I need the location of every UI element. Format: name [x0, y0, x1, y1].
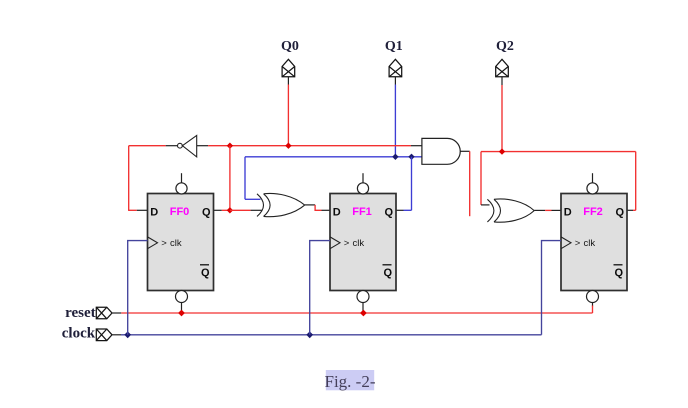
node junction Q2 pin (red dot) — [499, 148, 505, 154]
FF1 clear bubble — [357, 291, 369, 303]
wire XOR1 upper input riser (blue) — [244, 157, 246, 200]
xor gate XOR1 — [257, 193, 305, 216]
wire FF2 Q pin stub — [627, 209, 633, 211]
wire Q2 pin stem — [501, 77, 503, 85]
wire XOR3 upper input stub — [481, 204, 490, 206]
svg-text:Q: Q — [383, 267, 392, 279]
wire FF0 D pin stub — [137, 209, 148, 211]
wire clock FF1 riser (blue) — [310, 241, 330, 335]
svg-text:D: D — [150, 207, 158, 219]
output pin Q0 — [282, 59, 295, 77]
wire clock net (blue) — [121, 334, 542, 336]
svg-text:D: D — [333, 207, 341, 219]
wire clock FF2 riser (blue) — [542, 241, 562, 335]
wire XOR3 output stub — [534, 209, 545, 211]
svg-text:Fig. -2-: Fig. -2- — [325, 372, 376, 391]
wire inverter input stub — [197, 145, 208, 147]
FF1 preset bubble — [357, 183, 368, 194]
svg-text:reset: reset — [65, 305, 96, 321]
figure caption highlight — [326, 370, 374, 390]
wire FF2 Q riser (red) — [635, 152, 637, 211]
FF0 clear stem — [181, 302, 183, 312]
wire XOR3 upper riser (red) — [480, 152, 482, 205]
wire FF0 Q to XOR1 (red) — [230, 209, 251, 211]
svg-text:Q1: Q1 — [385, 39, 403, 54]
inverter bubble — [178, 143, 183, 148]
output pin Q2 — [496, 59, 509, 77]
svg-text:D: D — [564, 207, 572, 219]
wire FF0 feedback top (red) — [129, 145, 166, 147]
wire AND upper input stub — [411, 145, 422, 147]
xor gate XOR3 — [487, 199, 534, 222]
wire XOR1 output jog (red) — [315, 205, 321, 210]
wire FF2 Q horizontal (red) — [633, 209, 636, 211]
svg-text:clk: clk — [170, 238, 182, 249]
input pin reset — [96, 307, 112, 319]
svg-text:FF1: FF1 — [352, 206, 372, 218]
node junction FF0 Q (red dot) — [227, 207, 233, 213]
wire net Q0 horizontal (red) — [208, 145, 411, 147]
wire FF1 D pin stub — [322, 209, 331, 211]
node junction FF1 Q riser (blue dot) — [408, 154, 414, 160]
svg-text:Q: Q — [614, 267, 623, 279]
input pin clock — [96, 329, 112, 341]
wire XOR1 output stub — [305, 204, 315, 206]
wire reset pin stub — [112, 312, 121, 314]
svg-text:clk: clk — [584, 238, 596, 249]
wire XOR1 upper input (blue) — [245, 198, 261, 200]
FF2 preset bubble — [587, 183, 598, 194]
wire Q0 vertical (red) — [287, 85, 289, 146]
node junction Q0-inverter (red dot) — [227, 143, 233, 149]
wire inverter output stub — [166, 145, 178, 147]
wire net Q2 feedback horizontal (red) — [481, 151, 636, 153]
FF2 clear stem — [592, 302, 594, 306]
FF0 clear bubble — [176, 291, 188, 303]
svg-text:>: > — [161, 238, 167, 249]
wire XOR1 lower input stub — [251, 209, 262, 211]
svg-text:Q2: Q2 — [496, 39, 514, 54]
wire AND output down (red) — [469, 151, 471, 216]
node junction reset FF0 (red dot) — [178, 310, 185, 317]
FF2 preset bubble stem — [592, 173, 594, 183]
node junction reset FF1 (red dot) — [360, 310, 367, 317]
wire Q1 vertical (blue) — [394, 85, 396, 157]
node junction Q0 pin (red dot) — [285, 143, 291, 149]
wire Q2 vertical (red) — [501, 85, 503, 152]
FF2 clear bubble — [587, 291, 599, 303]
svg-text:Q0: Q0 — [281, 39, 299, 54]
node junction clock FF1 (blue dot) — [306, 331, 313, 338]
and gate U2 — [422, 138, 460, 164]
flip-flop FF2 box — [561, 194, 627, 291]
wire FF0 Q pin stub — [214, 209, 222, 211]
wire XOR3 output (red) — [545, 209, 551, 211]
wire AND output stub — [460, 150, 469, 152]
wire clock pin stub — [112, 334, 121, 336]
FF0 preset bubble — [176, 183, 187, 194]
flip-flop FF1 box — [330, 194, 396, 291]
inverter I1 — [182, 135, 196, 157]
flip-flop FF0 box — [148, 194, 214, 291]
wire FF0 Q riser (red) — [229, 146, 231, 211]
FF1 preset bubble stem — [362, 173, 364, 183]
FF1 clear stem — [362, 302, 364, 312]
wire FF0 feedback left vertical (red) — [128, 146, 130, 211]
wire clock FF0 riser (blue) — [128, 241, 148, 335]
wire FF1 Q pin stub — [396, 209, 404, 211]
FF0 preset bubble stem — [181, 173, 183, 183]
wire to FF0 D (red) — [128, 209, 137, 211]
wire Q0 pin stem — [287, 77, 289, 85]
wire FF1 Q riser (blue) — [411, 157, 413, 211]
svg-text:>: > — [575, 238, 581, 249]
svg-text:Q: Q — [384, 207, 393, 219]
svg-text:FF2: FF2 — [583, 206, 603, 218]
wire reset FF2 riser (red) — [592, 306, 594, 314]
svg-text:FF0: FF0 — [170, 206, 190, 218]
wire FF0 Q to junction (red) — [222, 209, 230, 211]
svg-text:clock: clock — [62, 326, 96, 342]
node junction clock FF0 (blue dot) — [124, 331, 131, 338]
svg-text:Q: Q — [201, 267, 210, 279]
wire FF1 Q horizontal (blue) — [404, 209, 412, 211]
output pin Q1 — [389, 59, 402, 77]
svg-text:clk: clk — [353, 238, 365, 249]
svg-text:Q: Q — [615, 207, 624, 219]
svg-text:>: > — [344, 238, 350, 249]
wire FF2 D pin stub — [552, 209, 562, 211]
wire net Q1 horizontal (blue) — [245, 156, 422, 158]
wire Q1 pin stem — [394, 77, 396, 85]
node junction Q1 pin (blue dot) — [392, 154, 398, 160]
svg-text:Q: Q — [202, 207, 211, 219]
wire reset net (red) — [121, 312, 592, 314]
